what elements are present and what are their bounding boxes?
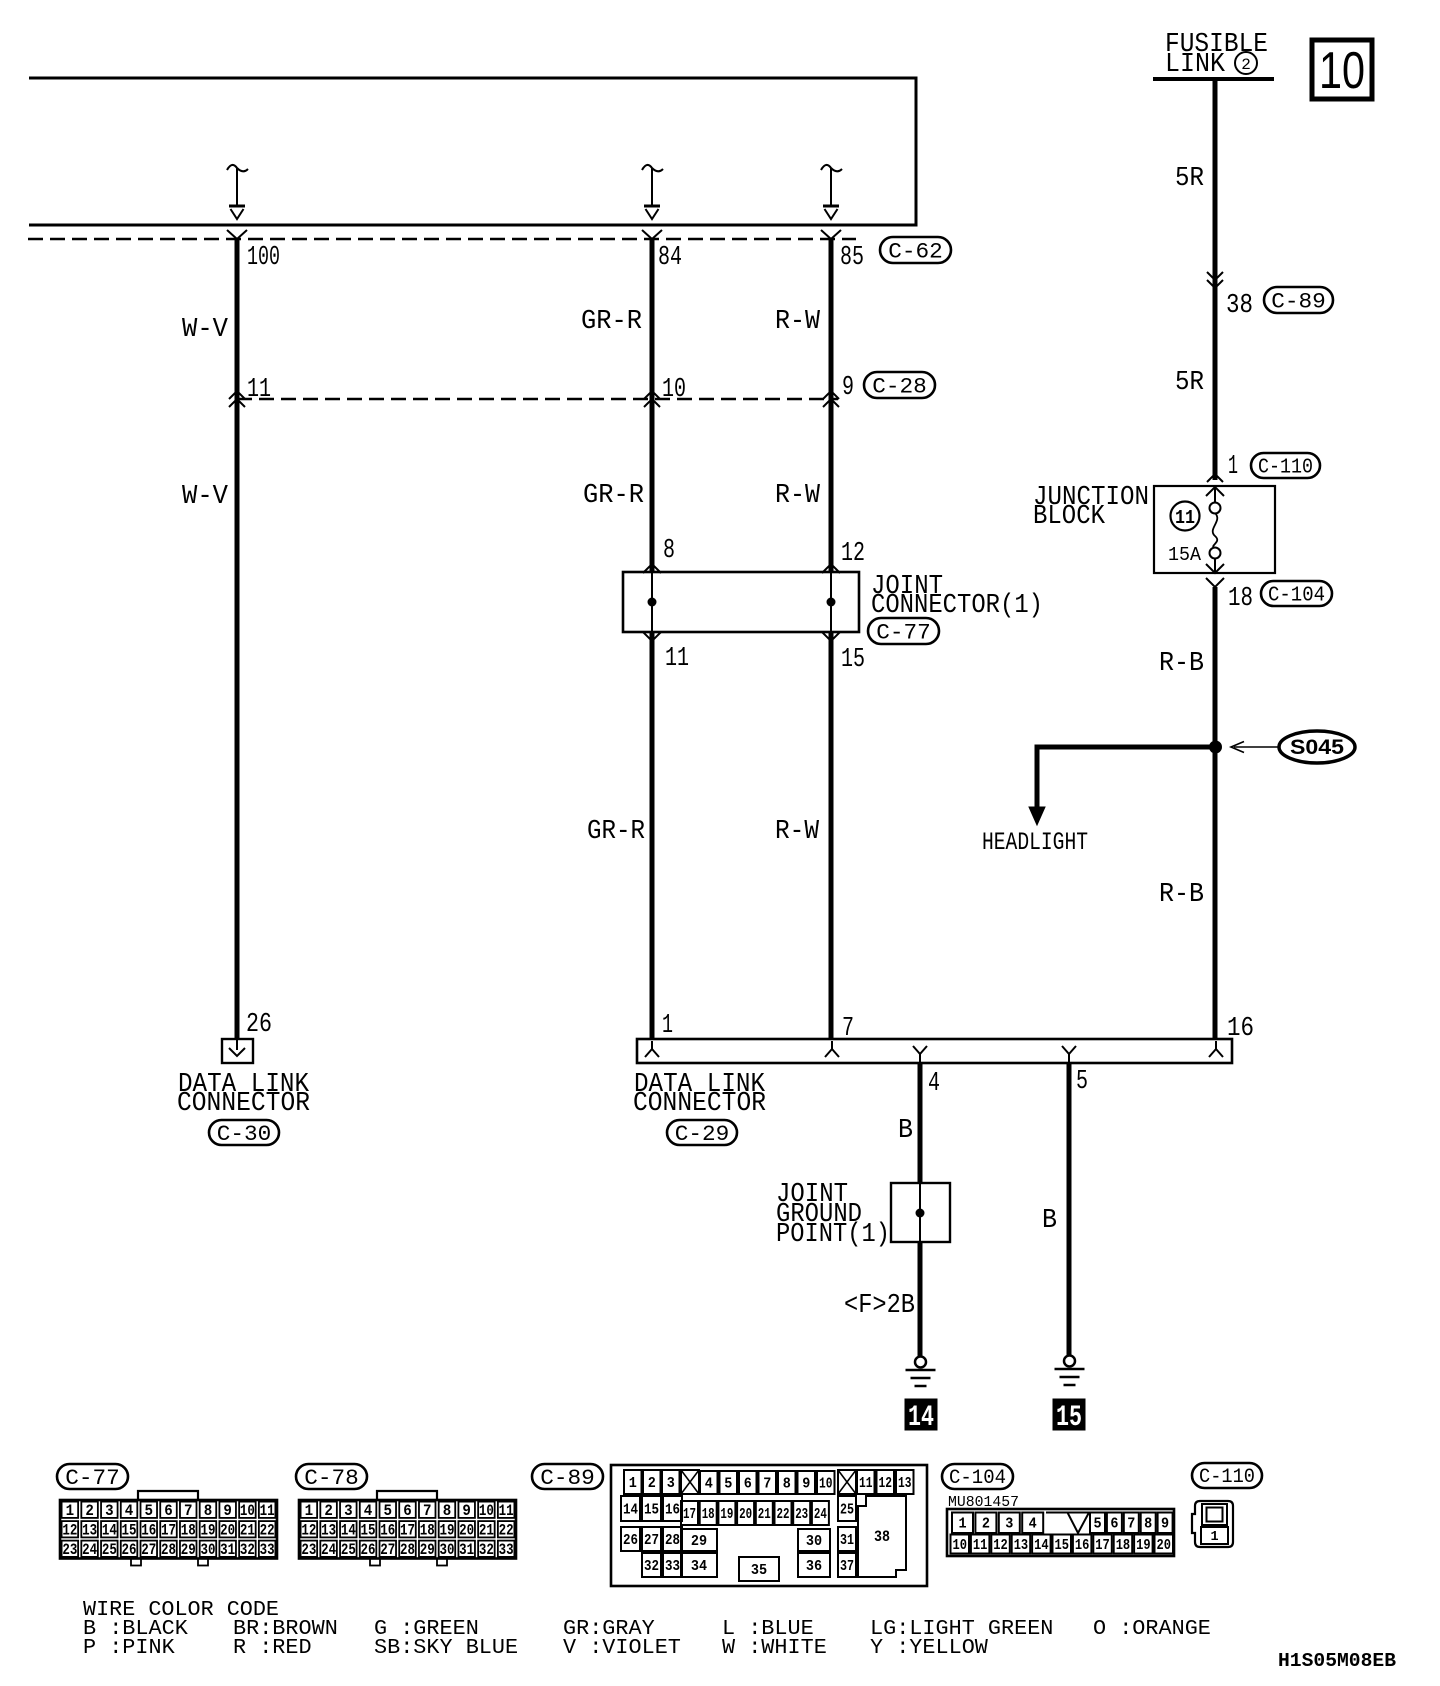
label MU801457	[948, 1494, 1019, 1511]
svg-text:2: 2	[324, 1502, 333, 1520]
joint ground junction dot	[916, 1209, 925, 1218]
pin chevron below joint connector pin 15	[822, 632, 840, 641]
svg-text:29: 29	[420, 1541, 435, 1559]
svg-text:R-W: R-W	[775, 817, 820, 847]
svg-text:GR-R: GR-R	[581, 307, 642, 337]
pin 38 label (C-89)	[1226, 291, 1253, 321]
svg-text:13: 13	[82, 1521, 97, 1539]
svg-text:3: 3	[1005, 1516, 1013, 1533]
svg-text:15: 15	[644, 1501, 659, 1518]
svg-text:10: 10	[662, 375, 686, 405]
pin 11 label (below joint connector)	[665, 644, 689, 674]
svg-text:15: 15	[1055, 1537, 1070, 1554]
page arrow into wire W-V	[227, 165, 248, 219]
svg-text:C-78: C-78	[304, 1466, 359, 1491]
wire B label (pin 4)	[898, 1116, 913, 1146]
svg-text:5R: 5R	[1175, 164, 1204, 194]
fusible link (2) label	[1165, 30, 1268, 80]
svg-text:27: 27	[141, 1541, 156, 1559]
circled 2 (fusible link number)	[1235, 52, 1257, 74]
svg-text:26: 26	[246, 1010, 272, 1040]
svg-text:4: 4	[1029, 1516, 1037, 1533]
svg-text:11: 11	[1175, 507, 1195, 529]
svg-text:19: 19	[1136, 1537, 1151, 1554]
svg-text:7: 7	[763, 1475, 771, 1492]
svg-text:11: 11	[665, 644, 689, 674]
svg-text:C-62: C-62	[888, 239, 943, 264]
connector pinout C-77 top latch tab	[138, 1491, 198, 1500]
svg-text:33: 33	[260, 1541, 275, 1559]
capsule C-110 (pinout ref)	[1192, 1463, 1262, 1489]
svg-text:16: 16	[141, 1521, 156, 1539]
wire GR-R lower segment	[650, 632, 655, 1039]
wire W-V label 2	[182, 482, 229, 512]
svg-text:23: 23	[301, 1541, 316, 1559]
svg-text:C-30: C-30	[217, 1122, 272, 1147]
label (F)2B	[844, 1291, 915, 1321]
svg-text:38: 38	[1226, 291, 1253, 321]
C-29 pin chevron 5	[1062, 1046, 1076, 1062]
svg-text:28: 28	[400, 1541, 415, 1559]
svg-text:1: 1	[662, 1011, 673, 1041]
pin 12 label (joint connector)	[841, 539, 865, 569]
svg-text:6: 6	[164, 1502, 173, 1520]
svg-text:HEADLIGHT: HEADLIGHT	[982, 828, 1088, 857]
svg-text:14: 14	[1034, 1537, 1049, 1554]
svg-text:9: 9	[462, 1502, 471, 1520]
svg-text:CONNECTOR(1): CONNECTOR(1)	[871, 591, 1043, 621]
svg-text:CONNECTOR: CONNECTOR	[633, 1089, 766, 1119]
svg-text:28: 28	[665, 1532, 680, 1549]
svg-text:24: 24	[814, 1506, 827, 1523]
svg-text:5: 5	[1076, 1067, 1088, 1097]
data link connector C-29 bar	[637, 1039, 1232, 1063]
svg-text:15A: 15A	[1168, 544, 1202, 566]
svg-text:1: 1	[629, 1475, 637, 1492]
svg-text:33: 33	[665, 1558, 680, 1575]
svg-text:13: 13	[321, 1521, 336, 1539]
wire color code legend	[83, 1598, 1211, 1660]
connector C-62 dashed boundary line	[28, 238, 856, 240]
C-29 pin chevron 16	[1209, 1041, 1223, 1057]
svg-text:31: 31	[220, 1541, 235, 1559]
diagram code H1S05M08EB	[1278, 1650, 1396, 1672]
svg-text:38: 38	[874, 1528, 890, 1546]
svg-text:GR-R: GR-R	[583, 481, 644, 511]
joint connector junction dot R-W	[827, 598, 836, 607]
svg-text:25: 25	[102, 1541, 117, 1559]
svg-text:24: 24	[82, 1541, 97, 1559]
svg-text:7: 7	[1127, 1516, 1135, 1533]
svg-text:9: 9	[1161, 1516, 1169, 1533]
capsule C-77 (joint connector ref)	[868, 618, 939, 645]
svg-text:C-89: C-89	[1271, 289, 1326, 314]
svg-text:85: 85	[840, 243, 864, 273]
pin 4 label (C-29)	[928, 1069, 940, 1099]
connector pinout C-110 body	[1192, 1501, 1233, 1547]
pin chevron C-62 pin 100	[227, 230, 247, 239]
page arrow into wire GR-R	[642, 165, 663, 219]
svg-text:13: 13	[1014, 1537, 1029, 1554]
svg-text:3: 3	[667, 1475, 675, 1492]
ground symbol 15	[1055, 1356, 1085, 1386]
svg-text:V :VIOLET: V :VIOLET	[563, 1636, 681, 1660]
svg-text:18: 18	[1228, 584, 1253, 614]
wire 5R label 1	[1175, 164, 1204, 194]
svg-text:18: 18	[1116, 1537, 1131, 1554]
svg-text:18: 18	[702, 1506, 715, 1523]
pin 26 label (C-30)	[246, 1010, 272, 1040]
C-29 pin chevron 4	[913, 1046, 927, 1062]
wire R-W label 3	[775, 817, 820, 847]
svg-text:36: 36	[806, 1558, 822, 1575]
wire R-W label 2	[775, 481, 821, 511]
svg-text:10: 10	[953, 1537, 968, 1554]
svg-text:17: 17	[1095, 1537, 1110, 1554]
svg-text:B: B	[1042, 1206, 1057, 1236]
svg-text:C-77: C-77	[65, 1466, 120, 1491]
wire GR-R mid segment	[650, 399, 655, 572]
svg-text:32: 32	[479, 1541, 494, 1559]
ground ref box 15	[1053, 1399, 1085, 1435]
pin chevron joint connector pin 12	[822, 564, 840, 573]
ground wire (F)2B lower	[918, 1242, 923, 1356]
connector pinout C-78 top latch tab	[377, 1491, 437, 1500]
svg-text:18: 18	[420, 1521, 435, 1539]
svg-text:2: 2	[1241, 56, 1251, 74]
svg-text:5R: 5R	[1175, 368, 1204, 398]
svg-text:3: 3	[344, 1502, 353, 1520]
wire R-W upper segment	[829, 239, 834, 399]
svg-text:LINK: LINK	[1165, 50, 1226, 80]
svg-text:17: 17	[683, 1506, 696, 1523]
ground wire B (pin 4) upper	[918, 1063, 923, 1183]
arrow into C-30 box	[229, 1039, 245, 1056]
junction block box	[1154, 486, 1275, 573]
svg-text:17: 17	[161, 1521, 176, 1539]
svg-text:23: 23	[62, 1541, 77, 1559]
svg-text:O :ORANGE: O :ORANGE	[1093, 1617, 1211, 1641]
svg-text:W-V: W-V	[182, 482, 229, 512]
svg-text:7: 7	[423, 1502, 432, 1520]
svg-text:11: 11	[859, 1475, 873, 1492]
ground ref box 14	[905, 1399, 937, 1435]
wire R-B label 1	[1159, 649, 1204, 679]
capsule C-29	[667, 1120, 737, 1147]
svg-text:15: 15	[122, 1521, 137, 1539]
svg-text:C-104: C-104	[949, 1467, 1006, 1490]
svg-text:84: 84	[658, 243, 682, 273]
svg-text:8: 8	[1144, 1516, 1152, 1533]
svg-text:6: 6	[1110, 1516, 1118, 1533]
svg-text:26: 26	[623, 1532, 638, 1549]
ECU box (top, from preceding page)	[29, 78, 916, 225]
joint connector junction dot GR-R	[648, 598, 657, 607]
svg-text:16: 16	[665, 1501, 680, 1518]
svg-text:W :WHITE: W :WHITE	[722, 1636, 827, 1660]
svg-text:BLOCK: BLOCK	[1033, 502, 1106, 532]
svg-text:31: 31	[840, 1532, 854, 1549]
pin 7 label (C-29)	[842, 1014, 854, 1044]
svg-text:11: 11	[247, 375, 271, 405]
circled 11 (junction block fuse number)	[1171, 502, 1200, 531]
capsule C-89 (pinout ref)	[532, 1464, 603, 1491]
capsule C-104 (inline)	[1261, 581, 1332, 607]
svg-text:20: 20	[739, 1506, 752, 1523]
pin 84 label	[658, 243, 682, 273]
svg-text:31: 31	[459, 1541, 474, 1559]
joint connector internal wire R-W	[830, 572, 832, 632]
C-29 pin chevron 7	[825, 1041, 839, 1057]
joint ground point (1) box	[891, 1183, 950, 1242]
svg-text:21: 21	[240, 1521, 255, 1539]
capsule C-62	[880, 237, 951, 264]
pin chevron joint connector pin 8	[643, 564, 661, 573]
label HEADLIGHT	[982, 828, 1088, 857]
connector pinout C-89 body	[611, 1465, 927, 1586]
connector pinout C-78 body	[299, 1500, 516, 1566]
svg-text:22: 22	[499, 1521, 514, 1539]
svg-text:1: 1	[1228, 452, 1238, 482]
fuse 15A symbol	[1210, 487, 1221, 573]
svg-text:15: 15	[841, 645, 865, 675]
svg-text:11: 11	[260, 1502, 275, 1520]
pin 85 label	[840, 243, 864, 273]
wire R-W mid segment	[829, 399, 834, 572]
svg-text:1: 1	[958, 1516, 966, 1533]
svg-text:26: 26	[122, 1541, 137, 1559]
svg-text:8: 8	[663, 536, 675, 566]
svg-text:C-28: C-28	[872, 374, 927, 399]
svg-text:30: 30	[200, 1541, 215, 1559]
svg-text:19: 19	[439, 1521, 454, 1539]
svg-text:3: 3	[105, 1502, 114, 1520]
svg-text:C-110: C-110	[1258, 456, 1313, 479]
pin chevron C-104 pin 18	[1206, 564, 1224, 587]
wire W-V label 1	[182, 315, 229, 345]
capsule C-104 (pinout ref)	[942, 1464, 1013, 1490]
pin chevron C-28 pin 10	[644, 391, 660, 407]
pin 11 label (C-28)	[247, 375, 271, 405]
label 15A	[1168, 544, 1202, 566]
svg-text:4: 4	[705, 1475, 713, 1492]
svg-text:14: 14	[908, 1401, 934, 1435]
joint ground internal wire	[919, 1183, 921, 1242]
svg-text:10: 10	[240, 1502, 255, 1520]
svg-text:W-V: W-V	[182, 315, 229, 345]
svg-text:9: 9	[842, 373, 854, 403]
label DATA LINK CONNECTOR (C-30)	[177, 1070, 310, 1119]
capsule C-28	[864, 372, 935, 399]
svg-text:5: 5	[724, 1475, 732, 1492]
wire 5R label 2	[1175, 368, 1204, 398]
svg-text:4: 4	[125, 1502, 134, 1520]
svg-text:22: 22	[777, 1506, 790, 1523]
splice node S045 junction dot	[1209, 741, 1222, 754]
svg-text:6: 6	[744, 1475, 752, 1492]
svg-text:10: 10	[819, 1475, 833, 1492]
label JUNCTION BLOCK	[1033, 483, 1149, 532]
C-29 pin chevron 1	[645, 1041, 659, 1057]
wire GR-R upper segment	[650, 239, 655, 399]
svg-text:P :PINK: P :PINK	[83, 1636, 175, 1660]
svg-text:13: 13	[898, 1475, 912, 1492]
connector C-28 dashed boundary line	[237, 398, 838, 400]
svg-text:5: 5	[145, 1502, 154, 1520]
svg-text:16: 16	[380, 1521, 395, 1539]
svg-text:25: 25	[840, 1501, 854, 1518]
label DATA LINK CONNECTOR (C-29)	[633, 1070, 766, 1119]
svg-text:H1S05M08EB: H1S05M08EB	[1278, 1650, 1396, 1672]
wire GR-R label 2	[583, 481, 644, 511]
svg-text:17: 17	[400, 1521, 415, 1539]
svg-text:20: 20	[220, 1521, 235, 1539]
svg-text:11: 11	[499, 1502, 514, 1520]
svg-text:32: 32	[644, 1558, 659, 1575]
svg-text:10: 10	[479, 1502, 494, 1520]
svg-text:28: 28	[161, 1541, 176, 1559]
svg-text:34: 34	[691, 1558, 707, 1575]
wire R-B upper segment	[1213, 587, 1218, 747]
data link connector C-30 terminal box	[222, 1039, 253, 1063]
svg-text:B: B	[898, 1116, 913, 1146]
svg-text:6: 6	[403, 1502, 412, 1520]
svg-text:R :RED: R :RED	[233, 1636, 312, 1660]
pin 18 label (C-104)	[1228, 584, 1253, 614]
svg-text:1: 1	[66, 1502, 75, 1520]
wire R-W label 1	[775, 307, 821, 337]
svg-text:C-77: C-77	[876, 620, 931, 645]
svg-text:7: 7	[184, 1502, 193, 1520]
svg-text:4: 4	[928, 1069, 940, 1099]
joint connector internal wire GR-R	[651, 572, 653, 632]
wire R-B lower segment	[1213, 747, 1218, 1039]
wire B label (pin 5)	[1042, 1206, 1057, 1236]
wire W-V upper segment	[235, 239, 240, 399]
pin 5 label (C-29)	[1076, 1067, 1088, 1097]
pin 100 label	[247, 243, 280, 273]
capsule C-110 (inline)	[1251, 453, 1320, 479]
svg-text:8: 8	[204, 1502, 213, 1520]
page number box 10	[1312, 40, 1372, 100]
pin chevron C-62 pin 85	[821, 230, 841, 239]
S045 label ellipse	[1279, 731, 1355, 763]
svg-text:16: 16	[1075, 1537, 1090, 1554]
svg-text:22: 22	[260, 1521, 275, 1539]
svg-text:20: 20	[1157, 1537, 1172, 1554]
svg-text:37: 37	[840, 1558, 854, 1575]
svg-text:29: 29	[181, 1541, 196, 1559]
svg-text:4: 4	[364, 1502, 373, 1520]
svg-text:C-110: C-110	[1199, 1466, 1255, 1489]
svg-text:POINT(1): POINT(1)	[776, 1220, 890, 1250]
svg-text:S045: S045	[1290, 736, 1344, 759]
svg-text:8: 8	[443, 1502, 452, 1520]
svg-text:27: 27	[644, 1532, 659, 1549]
svg-text:2: 2	[85, 1502, 94, 1520]
svg-text:12: 12	[62, 1521, 77, 1539]
capsule C-89 (inline)	[1264, 287, 1333, 314]
pin 1 label (C-110)	[1228, 452, 1238, 482]
label JOINT GROUND POINT(1)	[776, 1180, 890, 1250]
svg-text:1: 1	[305, 1502, 314, 1520]
connector pinout C-104 body	[947, 1509, 1174, 1556]
svg-text:14: 14	[102, 1521, 117, 1539]
label JOINT CONNECTOR(1)	[871, 572, 1043, 621]
svg-text:100: 100	[247, 243, 280, 273]
svg-text:9: 9	[802, 1475, 810, 1492]
svg-text:15: 15	[361, 1521, 376, 1539]
wire 5R upper segment	[1213, 79, 1218, 480]
arrow from S045 to splice	[1231, 742, 1279, 753]
svg-text:32: 32	[240, 1541, 255, 1559]
pin chevron C-110 pin 1	[1206, 474, 1224, 496]
svg-text:R-B: R-B	[1159, 649, 1204, 679]
ground symbol 14	[906, 1357, 936, 1387]
svg-text:CONNECTOR: CONNECTOR	[177, 1089, 310, 1119]
svg-text:11: 11	[973, 1537, 988, 1554]
connector pinout C-77 body	[60, 1500, 277, 1566]
pin chevron C-28 pin 9	[823, 391, 839, 407]
branch wire to headlight	[1029, 745, 1215, 826]
svg-text:19: 19	[720, 1506, 733, 1523]
pin 15 label (below joint connector)	[841, 645, 865, 675]
svg-text:21: 21	[479, 1521, 494, 1539]
capsule C-78 (pinout ref)	[296, 1464, 367, 1491]
wire W-V mid segment	[235, 399, 240, 1039]
pin 9 label (C-28)	[842, 373, 854, 403]
svg-text:29: 29	[691, 1533, 707, 1550]
svg-text:<F>2B: <F>2B	[844, 1291, 915, 1321]
svg-text:18: 18	[181, 1521, 196, 1539]
svg-text:12: 12	[993, 1537, 1008, 1554]
svg-text:27: 27	[380, 1541, 395, 1559]
svg-text:8: 8	[783, 1475, 791, 1492]
pin chevron C-62 pin 84	[642, 230, 662, 239]
svg-text:25: 25	[341, 1541, 356, 1559]
pin chevron C-89 pin 38	[1207, 272, 1223, 288]
svg-text:19: 19	[200, 1521, 215, 1539]
svg-text:R-W: R-W	[775, 307, 821, 337]
svg-text:2: 2	[982, 1516, 990, 1533]
page arrow into wire R-W	[821, 165, 842, 219]
svg-text:12: 12	[301, 1521, 316, 1539]
pin 1 label (C-29)	[662, 1011, 673, 1041]
pin 16 label (C-29)	[1227, 1014, 1254, 1044]
capsule C-77 (pinout ref)	[57, 1464, 128, 1491]
svg-text:C-29: C-29	[675, 1122, 730, 1147]
svg-text:20: 20	[459, 1521, 474, 1539]
svg-text:23: 23	[795, 1506, 808, 1523]
joint connector (1) box C-77	[623, 572, 859, 632]
svg-text:30: 30	[806, 1533, 822, 1550]
wire R-W lower segment	[829, 632, 834, 1039]
svg-text:24: 24	[321, 1541, 336, 1559]
svg-text:10: 10	[1319, 42, 1365, 100]
svg-text:21: 21	[758, 1506, 771, 1523]
svg-text:12: 12	[879, 1475, 893, 1492]
svg-text:35: 35	[751, 1562, 767, 1579]
svg-text:15: 15	[1056, 1401, 1082, 1435]
pin 10 label (C-28)	[662, 375, 686, 405]
capsule C-30	[209, 1120, 279, 1147]
svg-text:14: 14	[623, 1501, 638, 1518]
ground wire B (pin 5)	[1067, 1063, 1072, 1355]
svg-text:5: 5	[384, 1502, 393, 1520]
wire GR-R label 1	[581, 307, 642, 337]
svg-text:9: 9	[223, 1502, 232, 1520]
fusible link bus bar	[1153, 77, 1274, 81]
